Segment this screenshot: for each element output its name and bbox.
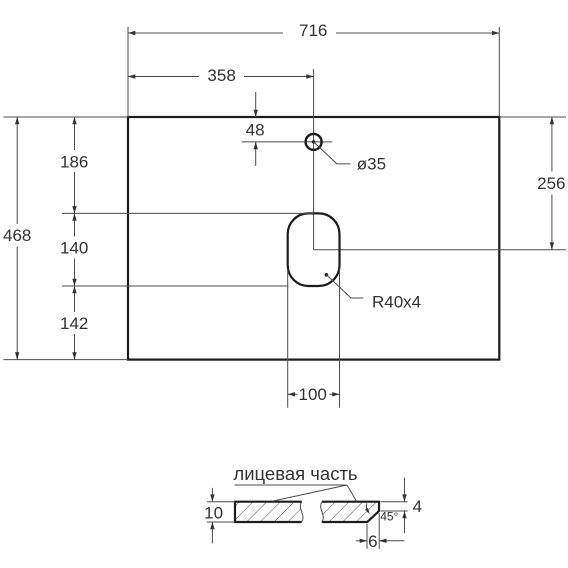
dimension 256 bbox=[537, 117, 565, 250]
extension line cutout width left bbox=[287, 269, 289, 408]
dimension 142 bbox=[60, 286, 88, 360]
extension line cutout bottom level bbox=[62, 285, 289, 287]
svg-text:716: 716 bbox=[299, 21, 327, 40]
section bar left piece bbox=[235, 502, 303, 522]
svg-text:лицевая часть: лицевая часть bbox=[233, 463, 357, 484]
svg-text:6: 6 bbox=[368, 532, 377, 551]
extension line cutout width right bbox=[339, 269, 341, 408]
section bar right piece bbox=[321, 502, 379, 522]
centerline horizontal at 256 level bbox=[314, 249, 566, 251]
dimension 6 bbox=[356, 532, 404, 551]
extension line cutout top level bbox=[62, 212, 314, 214]
section hatch pattern def bbox=[0, 0, 1, 1]
extension line left edge top bbox=[127, 27, 129, 117]
label 45 degrees bbox=[380, 510, 398, 524]
section extension lines left bbox=[207, 502, 235, 522]
45 degree arc with arrow bbox=[365, 503, 370, 514]
dimension 48 bbox=[246, 92, 265, 166]
section extension lines right bbox=[381, 502, 408, 511]
extension line bottom-left horizontal bbox=[4, 359, 129, 361]
countertop outline 716x468 bbox=[128, 117, 499, 360]
svg-text:10: 10 bbox=[204, 503, 223, 522]
svg-text:256: 256 bbox=[537, 174, 565, 193]
dimension 10 bbox=[204, 488, 223, 544]
svg-text:48: 48 bbox=[246, 121, 265, 140]
extension line top-right horizontal bbox=[500, 116, 566, 118]
leader R40x4 bbox=[325, 273, 422, 312]
svg-text:358: 358 bbox=[207, 66, 235, 85]
leader ø35 bbox=[314, 142, 386, 174]
svg-text:45°: 45° bbox=[380, 510, 398, 524]
label litsevaya chast bbox=[233, 463, 357, 501]
dimension 100 bbox=[288, 385, 340, 404]
svg-text:142: 142 bbox=[60, 314, 88, 333]
svg-text:140: 140 bbox=[60, 238, 88, 257]
svg-text:468: 468 bbox=[3, 226, 31, 245]
svg-text:ø35: ø35 bbox=[357, 155, 386, 174]
dimension 140 bbox=[60, 213, 88, 286]
faucet hole ø35 bbox=[306, 134, 322, 150]
svg-text:R40x4: R40x4 bbox=[372, 293, 421, 312]
dimension 358 bbox=[128, 66, 314, 85]
dimension 716 bbox=[128, 21, 499, 40]
dimension 4 bbox=[402, 478, 422, 533]
dimension 468 bbox=[3, 117, 31, 360]
faucet hole crosshair horizontal bbox=[242, 141, 333, 143]
svg-text:4: 4 bbox=[413, 497, 422, 516]
dimension 186 bbox=[60, 117, 88, 213]
svg-text:186: 186 bbox=[60, 153, 88, 172]
extension line top-left horizontal bbox=[4, 116, 129, 118]
svg-text:100: 100 bbox=[299, 385, 327, 404]
centerline vertical through faucet hole bbox=[313, 69, 315, 250]
extension lines chamfer width bbox=[367, 513, 379, 549]
sink cutout R40x4 bbox=[288, 213, 340, 286]
extension line right edge top bbox=[498, 27, 500, 117]
